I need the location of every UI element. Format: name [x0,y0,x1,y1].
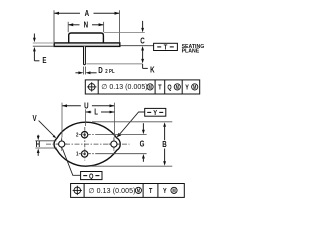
A extension lines [53,10,55,42]
svg-text:M: M [176,84,180,90]
right mounting hole [111,141,117,147]
left mounting hole [59,141,65,147]
pin horizontal dashes [79,134,97,136]
dimension U line [62,105,81,107]
right hole crosshair [109,143,120,145]
datum box -Q- [81,172,102,180]
seating plane line [120,45,153,47]
svg-text:2 PL: 2 PL [105,68,115,75]
svg-text:Y: Y [153,109,157,117]
D tick extension lines [82,67,84,75]
hole centerline (horizontal dashed) [46,143,130,145]
K elbow + label [142,64,144,69]
C/K shared vertical with arrows [141,46,144,51]
U extension lines [61,103,63,138]
dimension G extension lines [97,134,147,136]
svg-text:∅ 0.13 (0.005): ∅ 0.13 (0.005) [101,84,148,91]
B dimension line [163,122,166,127]
-Q- leader [62,149,80,176]
dimension E arrows [33,34,35,39]
svg-text:T: T [158,84,161,92]
dimension A line [54,12,120,14]
dimension H extension lines [35,140,56,142]
svg-text:H: H [36,139,40,149]
svg-text:G: G [140,139,145,149]
svg-text:U: U [84,101,88,111]
N extension lines [67,22,69,32]
H arrows [37,135,39,137]
dimension B extension lines [92,121,172,123]
left hole crosshair [56,143,67,145]
top feature control frame [85,80,199,94]
svg-text:B: B [162,139,166,149]
svg-text:V: V [33,113,37,123]
pin bottom extension line [86,63,142,65]
pin 2 circle [81,132,87,138]
position symbol [87,82,96,91]
dimension L line [86,111,92,113]
svg-text:M: M [148,84,152,90]
svg-text:M: M [137,188,141,194]
svg-text:K: K [150,64,155,74]
svg-text:M: M [172,188,176,194]
flange edge extension lines (left) [33,42,54,44]
svg-text:L: L [94,107,98,117]
bottom feature control frame [71,184,185,198]
svg-text:Q: Q [167,84,171,92]
modifier M circle [147,84,153,90]
-Y- leader [118,112,145,136]
svg-text:T: T [164,44,168,52]
cap-top extension line [104,32,145,34]
G arrows [142,123,144,130]
svg-text:E: E [42,55,46,65]
pin 1 circle [81,151,87,157]
dimension D line + arrows [75,72,79,74]
pin (side view) [84,46,86,64]
svg-text:C: C [140,35,145,45]
right hole vertical dash [113,137,115,150]
position symbol [73,186,82,195]
dimension C arrow (top) [142,21,144,29]
svg-text:2: 2 [76,132,79,139]
flange bar [54,43,120,47]
datum box -Y- [145,108,166,116]
pin vertical dashed centerline [84,127,86,161]
body outline [54,122,120,166]
modifier M circle [135,187,141,193]
svg-text:Q: Q [89,173,93,181]
dimension N line [68,24,103,26]
cap outline [69,33,104,43]
datum box -T- [154,43,178,50]
svg-text:1: 1 [76,151,79,158]
svg-text:A: A [85,8,90,18]
svg-text:T: T [149,187,152,195]
svg-text:PLANE: PLANE [182,49,200,55]
left hole vertical dash [61,137,63,150]
svg-text:N: N [84,20,88,30]
svg-text:∅ 0.13 (0.005): ∅ 0.13 (0.005) [88,188,135,195]
svg-text:D: D [98,65,103,75]
svg-text:M: M [193,84,197,90]
L extension line [85,109,87,126]
